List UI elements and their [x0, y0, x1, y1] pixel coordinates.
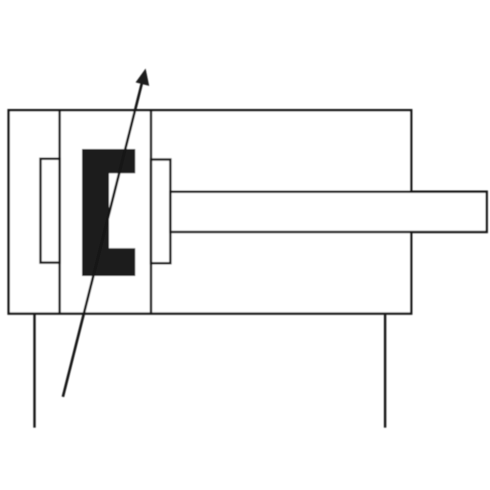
- piston rod: [170, 192, 486, 232]
- right cushion rectangle: [151, 160, 170, 264]
- piston left edge: [58, 110, 60, 313]
- cylinder body: [9, 110, 412, 313]
- left port line: [33, 314, 35, 428]
- right port line: [384, 314, 386, 428]
- magnetic piston bracket: [82, 149, 135, 276]
- adjustability arrow shaft: [63, 80, 143, 397]
- left cushion rectangle: [41, 159, 60, 263]
- piston right edge: [150, 110, 152, 313]
- adjustability arrowhead: [136, 69, 150, 86]
